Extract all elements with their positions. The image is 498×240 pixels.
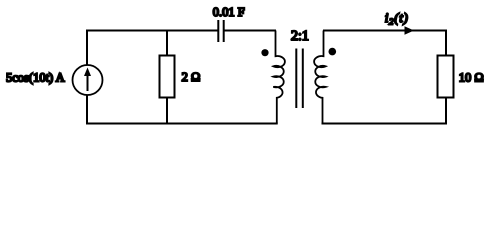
- wire: secondary top wire: [323, 31, 446, 56]
- wire: 2-ohm branch top: [166, 31, 168, 56]
- wire: 2-ohm branch bottom: [166, 98, 168, 124]
- dot: primary polarity dot: [261, 49, 268, 56]
- resistor R2 10 ohm: [438, 56, 454, 98]
- transformer T1 secondary winding: [314, 31, 326, 124]
- transformer core: [296, 49, 303, 109]
- svg-text:2 Ω: 2 Ω: [182, 70, 201, 84]
- resistor R1 2 ohm: [160, 56, 175, 98]
- svg-text:i2(t): i2(t): [385, 10, 409, 27]
- dot: secondary polarity dot: [329, 48, 337, 56]
- wire: primary left wire lower + bottom wire: [87, 95, 278, 124]
- svg-text:2:1: 2:1: [291, 29, 309, 44]
- capacitor C1 0.01 F: [218, 20, 223, 42]
- wire: primary top wire (capacitor to transformer primary): [225, 30, 277, 32]
- transformer T1 primary winding: [273, 31, 285, 124]
- arrowhead: i2(t) current direction: [405, 26, 415, 34]
- current source I1 5cos(10t) A: [73, 65, 103, 95]
- svg-text:0.01 F: 0.01 F: [213, 5, 245, 19]
- svg-text:10 Ω: 10 Ω: [459, 71, 484, 85]
- wire: primary top wire (left segment, source to capacitor): [87, 31, 218, 66]
- svg-text:5cos(10t) A: 5cos(10t) A: [6, 71, 65, 85]
- wire: secondary bottom wire: [322, 98, 447, 124]
